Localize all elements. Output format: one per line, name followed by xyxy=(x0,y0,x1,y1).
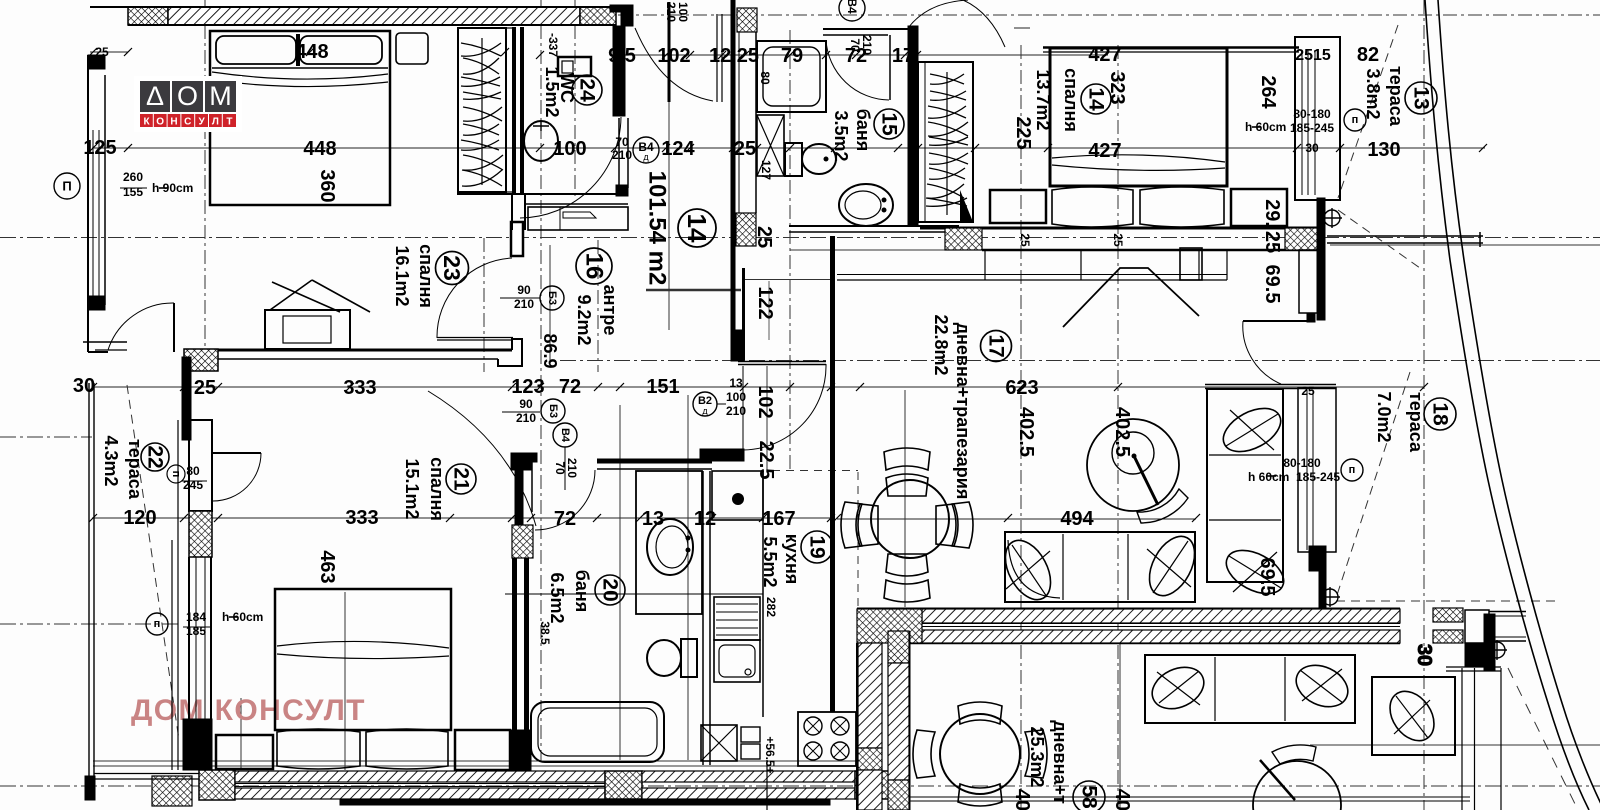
bed21 blanket xyxy=(277,641,449,658)
party wall corner black xyxy=(1465,643,1485,666)
survey marks xyxy=(1322,208,1342,228)
svg-text:185-245: 185-245 xyxy=(1290,121,1334,135)
site boundary curve B xyxy=(1438,0,1600,810)
svg-text:123: 123 xyxy=(511,376,544,398)
party wall crosshatch right xyxy=(1433,608,1463,622)
svg-text:П: П xyxy=(62,179,71,194)
dashed diag terrace13 xyxy=(1338,25,1398,198)
svg-text:210: 210 xyxy=(565,458,579,478)
svg-text:25: 25 xyxy=(1111,233,1125,247)
svg-text:69.5: 69.5 xyxy=(1256,558,1278,597)
svg-text:п: п xyxy=(1349,464,1356,476)
svg-text:80: 80 xyxy=(186,464,200,478)
svg-text:120: 120 xyxy=(123,507,156,529)
svg-text:40: 40 xyxy=(1011,789,1033,810)
room14 bottom wall band xyxy=(920,227,1318,230)
svg-text:102: 102 xyxy=(657,45,690,67)
svg-text:70: 70 xyxy=(615,135,629,149)
top wall band room23 hatched xyxy=(128,7,168,25)
vertical axis x1424 xyxy=(1423,0,1425,810)
vertical axis x205 xyxy=(204,0,206,375)
svg-text:антре: антре xyxy=(600,285,620,336)
logo KONSULT xyxy=(140,114,236,128)
svg-text:Л: Л xyxy=(212,117,219,128)
svg-text:25: 25 xyxy=(753,226,775,248)
room21 terrace door leaf xyxy=(213,452,261,454)
sink15 xyxy=(839,184,893,226)
dim line y518 xyxy=(92,517,830,519)
svg-text:О: О xyxy=(156,117,164,128)
floor lamp living xyxy=(1087,419,1179,511)
svg-text:5.5m2: 5.5m2 xyxy=(760,536,780,587)
tv unit living xyxy=(837,274,1227,276)
svg-text:тераса: тераса xyxy=(1406,392,1426,453)
top wall edge lines xyxy=(90,6,616,8)
dresser room23 xyxy=(265,310,350,349)
toilet15 tank xyxy=(785,143,802,176)
svg-text:623: 623 xyxy=(1005,377,1038,399)
svg-text:спалня: спалня xyxy=(1061,68,1081,132)
svg-text:100: 100 xyxy=(726,390,746,404)
chair left xyxy=(856,504,878,546)
vertical x620 xyxy=(619,405,621,760)
svg-text:9.2m2: 9.2m2 xyxy=(574,294,594,345)
svg-text:С: С xyxy=(184,117,191,128)
window23 label P xyxy=(54,173,80,199)
svg-text:25: 25 xyxy=(194,377,216,399)
living east window column lower xyxy=(1298,388,1336,552)
kitchen sink unit xyxy=(714,640,760,682)
axis dashdot y624 left xyxy=(0,623,180,625)
bed14 bench left box xyxy=(990,190,1046,223)
lower sofa pillow xyxy=(1146,659,1211,716)
dashed beam dining xyxy=(772,470,858,472)
svg-text:9.5: 9.5 xyxy=(608,45,636,67)
terrace18 door arc xyxy=(1243,321,1281,384)
svg-text:210: 210 xyxy=(664,2,678,22)
duct crosshatch top xyxy=(737,8,757,32)
room24 circle xyxy=(572,75,602,105)
kitchen door arc xyxy=(743,364,826,450)
left wall room21 black top xyxy=(182,357,191,440)
kitchen upper cabinet xyxy=(712,471,763,520)
furniture layer xyxy=(210,28,1455,810)
svg-text:69.5: 69.5 xyxy=(1261,265,1283,304)
svg-text:-337: -337 xyxy=(546,33,560,57)
shower tray bath15 xyxy=(757,41,826,112)
svg-text:151: 151 xyxy=(646,376,679,398)
svg-text:127: 127 xyxy=(759,160,773,180)
axis dashdot y786 full xyxy=(0,785,1600,787)
svg-text:463: 463 xyxy=(316,550,338,583)
svg-text:К: К xyxy=(143,117,150,128)
svg-text:333: 333 xyxy=(343,377,376,399)
svg-text:448: 448 xyxy=(295,41,328,63)
thin y245 right xyxy=(1330,244,1600,246)
dimension tick marks xyxy=(89,48,1487,522)
WC right wall black xyxy=(613,26,625,116)
bath15/wardrobe14 wall black xyxy=(908,26,918,226)
svg-text:102: 102 xyxy=(754,385,776,418)
vertical x345 bottom xyxy=(344,592,346,770)
logo DOM xyxy=(140,81,236,112)
svg-text:1.5m2: 1.5m2 xyxy=(542,66,562,117)
bed23 pillow right xyxy=(300,36,382,64)
bath15 door leaf xyxy=(889,35,891,100)
svg-text:3.5m2: 3.5m2 xyxy=(831,110,851,161)
living chevron xyxy=(1063,268,1199,327)
svg-text:Δ: Δ xyxy=(146,81,164,111)
lower apt inner line xyxy=(909,631,911,810)
bed23 blanket lines xyxy=(212,72,388,79)
svg-text:ДОМ КОНСУЛТ: ДОМ КОНСУЛТ xyxy=(131,694,366,727)
svg-text:323: 323 xyxy=(1106,71,1128,104)
svg-text:4.3m2: 4.3m2 xyxy=(101,435,121,486)
hall west wall: bedroom21 side column xyxy=(511,453,537,470)
dim line y55 xyxy=(612,54,1108,56)
svg-text:h 90cm: h 90cm xyxy=(152,181,193,195)
bath15 door arc xyxy=(826,40,889,100)
left wall room21 crosshatch xyxy=(189,511,212,557)
svg-text:210: 210 xyxy=(514,297,534,311)
hall cabinet xyxy=(528,207,628,230)
bottom wall band hatched xyxy=(199,770,235,800)
svg-text:90: 90 xyxy=(517,283,531,297)
WC/wardrobe wall lower white column xyxy=(511,193,513,230)
dim line y518 right xyxy=(837,518,1196,520)
svg-text:40: 40 xyxy=(1111,789,1133,810)
entrance jamb black L xyxy=(610,5,633,26)
svg-text:360: 360 xyxy=(316,169,338,202)
WC toilet bowl xyxy=(524,121,558,161)
bath20 left wall bottom black xyxy=(510,730,531,770)
room18 circle xyxy=(1424,398,1456,430)
svg-text:кухня: кухня xyxy=(782,534,802,585)
sink20 xyxy=(647,519,693,575)
axis dashdot y233 full xyxy=(0,237,1600,239)
boiler Xbox bath15 xyxy=(757,115,784,176)
duct crosshatch bottom xyxy=(736,213,756,246)
thin lines y761 y766 xyxy=(93,760,860,762)
lower apt stove xyxy=(798,712,856,766)
sofa v pillow bottom xyxy=(1219,542,1291,603)
nightstand14 left xyxy=(1180,248,1202,280)
lower lamp xyxy=(1253,761,1341,810)
bottom wall room23: crosshatch block xyxy=(184,349,218,371)
svg-text:п: п xyxy=(1352,114,1359,126)
vertical x1120 bottom xyxy=(1119,643,1121,810)
axis dashdot top right xyxy=(618,14,1600,16)
entrance door leaf xyxy=(668,2,671,102)
party wall vertical leg outer xyxy=(858,643,882,748)
svg-text:баня: баня xyxy=(853,109,873,152)
bottom wall room23 band xyxy=(218,349,512,352)
room23 terrace door leaf xyxy=(173,303,175,352)
room14 door arc xyxy=(908,0,1005,47)
svg-text:25.3m2: 25.3m2 xyxy=(1027,726,1047,787)
svg-text:427: 427 xyxy=(1088,44,1121,66)
party wall band horizontal xyxy=(922,609,1400,623)
WC cistern xyxy=(558,57,591,76)
door bath20 label xyxy=(553,423,577,447)
left wall room21 window column xyxy=(188,557,190,719)
lower chair top xyxy=(958,702,1002,724)
kitchen small boxes xyxy=(741,727,760,742)
svg-text:2515: 2515 xyxy=(1295,47,1331,64)
party wall end white column xyxy=(1465,610,1489,643)
svg-text:130: 130 xyxy=(1367,139,1400,161)
svg-text:17: 17 xyxy=(892,45,914,67)
room23 entry door leaf xyxy=(437,337,513,339)
bed21 cushion1 xyxy=(277,729,360,769)
bed room21 xyxy=(275,589,451,730)
living north wall pair xyxy=(1205,384,1336,386)
terrace13 wall black bar xyxy=(1317,198,1325,320)
lower sofa horizontal xyxy=(1145,655,1355,723)
lower chair left xyxy=(913,730,935,778)
svg-text:282: 282 xyxy=(764,597,778,617)
wardrobe23 hangers xyxy=(461,43,503,186)
room14 top wall xyxy=(1043,46,1299,49)
svg-text:п: п xyxy=(170,471,182,478)
room17 circle xyxy=(981,331,1012,362)
dashed diag bottomright xyxy=(1508,668,1578,810)
svg-text:дневна+т: дневна+т xyxy=(1050,720,1070,804)
kitchen duct wall black line xyxy=(731,0,736,361)
svg-text:101.54 m2: 101.54 m2 xyxy=(644,171,671,286)
bed21 cushion2 xyxy=(366,729,448,769)
svg-text:M: M xyxy=(209,81,232,111)
wardrobe23 rect xyxy=(458,28,506,192)
site boundary curve A xyxy=(1425,0,1589,810)
chair right xyxy=(936,504,958,546)
svg-text:д: д xyxy=(702,406,708,416)
apt number circle xyxy=(678,209,716,247)
svg-text:21: 21 xyxy=(450,467,473,491)
svg-text:210: 210 xyxy=(726,404,746,418)
hall bottom wall jog black xyxy=(731,330,744,361)
svg-text:B4: B4 xyxy=(845,0,859,14)
bottom dark line xyxy=(340,799,830,805)
svg-text:122: 122 xyxy=(754,286,776,319)
wall jog right end room23 xyxy=(498,339,522,366)
bath15 top wall xyxy=(823,28,913,30)
svg-text:402.5: 402.5 xyxy=(1015,407,1037,457)
terrace18 door leaf xyxy=(1243,320,1309,322)
left wall room21 window frame upper xyxy=(189,420,212,511)
svg-text:80-180: 80-180 xyxy=(1293,107,1331,121)
wardrobe-WC bottom wall xyxy=(457,193,628,195)
vertical axis x575 xyxy=(574,0,576,200)
room13 circle xyxy=(1405,82,1437,114)
bath20/kitchen divider xyxy=(702,471,704,765)
bath15 bottom wall xyxy=(789,225,959,227)
svg-text:185: 185 xyxy=(186,624,206,638)
svg-text:402.5: 402.5 xyxy=(1111,407,1133,457)
chair bottom xyxy=(886,554,928,576)
svg-text:29.: 29. xyxy=(1261,199,1283,227)
party wall corner crosshatch xyxy=(857,609,922,643)
room22 circle xyxy=(141,443,169,471)
wardrobe14 xyxy=(918,62,973,222)
svg-text:14: 14 xyxy=(682,214,712,243)
dashed diag terrace18a xyxy=(1337,372,1410,595)
bedside room23 xyxy=(396,33,428,64)
svg-text:427: 427 xyxy=(1088,140,1121,162)
svg-text:25: 25 xyxy=(95,45,109,59)
bed21 bench right box xyxy=(455,730,510,770)
svg-text:15: 15 xyxy=(878,112,901,136)
B2 door label xyxy=(693,392,717,416)
vertical x905 xyxy=(904,390,906,607)
svg-text:13: 13 xyxy=(729,376,743,390)
room22 p circle xyxy=(167,465,185,483)
svg-text:30: 30 xyxy=(1305,141,1319,155)
room23 entry door arc xyxy=(437,258,512,338)
sofa vertical living xyxy=(1207,389,1283,582)
svg-text:210: 210 xyxy=(516,411,536,425)
vanity bath20 xyxy=(636,471,702,614)
svg-text:82: 82 xyxy=(1357,44,1379,66)
bed23 pillow left xyxy=(216,36,296,64)
wardrobe23 rail xyxy=(481,38,483,185)
room23 door jamb column xyxy=(511,222,523,256)
svg-text:90: 90 xyxy=(519,397,533,411)
WC lower wall column xyxy=(618,118,620,188)
svg-text:30: 30 xyxy=(73,375,95,397)
svg-text:16.1m2: 16.1m2 xyxy=(392,245,412,306)
svg-text:18: 18 xyxy=(1429,402,1452,426)
svg-text:30: 30 xyxy=(1413,644,1435,666)
svg-text:h 60cm: h 60cm xyxy=(222,610,263,624)
left outer wall room23 xyxy=(87,55,89,352)
svg-text:3.8m2: 3.8m2 xyxy=(1363,68,1383,119)
svg-text:п: п xyxy=(154,618,161,630)
svg-text:210: 210 xyxy=(860,35,874,55)
svg-text:155: 155 xyxy=(123,185,143,199)
vertical axis x1118 xyxy=(1117,45,1119,810)
svg-text:22.8m2: 22.8m2 xyxy=(931,314,951,375)
vertical axis x1021 xyxy=(1020,45,1022,810)
svg-text:15.1m2: 15.1m2 xyxy=(402,458,422,519)
sofa pillow left xyxy=(996,533,1060,607)
duct column lines xyxy=(738,32,740,213)
terrace13 railing xyxy=(1327,235,1483,237)
svg-text:Н: Н xyxy=(170,117,177,128)
svg-text:23: 23 xyxy=(439,255,465,281)
toilet20 tank xyxy=(681,639,697,677)
black sq below window xyxy=(1307,314,1315,322)
svg-text:494: 494 xyxy=(1060,508,1094,530)
svg-text:баня: баня xyxy=(572,570,592,613)
dashed diag terrace22 xyxy=(127,385,179,740)
entrance door arc xyxy=(635,28,713,101)
party wall vertical leg inner xyxy=(888,631,909,663)
svg-text:тераса: тераса xyxy=(1386,66,1406,127)
kitchen door leaf xyxy=(738,361,826,363)
bath20 left wall double black xyxy=(512,558,517,730)
right wall column lower xyxy=(1461,668,1463,810)
room21 terrace door arc xyxy=(213,453,261,501)
svg-text:79: 79 xyxy=(781,45,803,67)
terrace22 left edge xyxy=(88,383,90,776)
svg-text:тераса: тераса xyxy=(125,439,145,500)
bed14 cushion1 xyxy=(1052,187,1133,227)
lower armchair vertical xyxy=(1372,677,1455,755)
bed room23 outer xyxy=(210,31,390,205)
lower armchair pillow xyxy=(1290,657,1355,714)
bed14 bench right box xyxy=(1231,189,1287,226)
svg-text:58: 58 xyxy=(1078,785,1101,809)
bed14 blanket xyxy=(1052,155,1225,171)
wardrobe23 side column xyxy=(506,28,514,192)
chair top xyxy=(886,474,928,496)
svg-text:спалня: спалня xyxy=(427,457,447,521)
svg-text:Б3: Б3 xyxy=(547,404,559,418)
room14 circle xyxy=(1081,84,1111,114)
dashed diag terrace13b xyxy=(1338,210,1420,268)
lower chair right xyxy=(1025,730,1047,778)
svg-text:O: O xyxy=(177,81,198,111)
thin y745 right xyxy=(1310,744,1600,746)
svg-text:24: 24 xyxy=(576,78,599,102)
kitchen east line xyxy=(762,471,764,717)
svg-text:25: 25 xyxy=(1018,233,1032,247)
toilet15 bowl xyxy=(802,144,836,174)
svg-text:25: 25 xyxy=(1301,384,1315,398)
svg-text:Т: Т xyxy=(226,117,232,128)
sofa long living xyxy=(1005,532,1195,602)
svg-text:13.7m2: 13.7m2 xyxy=(1033,69,1053,130)
svg-text:h 60cm: h 60cm xyxy=(1248,470,1289,484)
svg-text:225: 225 xyxy=(1012,116,1034,149)
svg-text:B4: B4 xyxy=(559,428,571,443)
svg-text:12.25: 12.25 xyxy=(709,45,759,67)
svg-text:184: 184 xyxy=(186,610,206,624)
lower apt dining table xyxy=(940,714,1020,794)
room16 circle xyxy=(576,248,612,284)
bath20 top wall xyxy=(597,459,712,464)
room23 circle xyxy=(436,252,469,285)
vertical axis x790 xyxy=(789,30,791,470)
sofa pillow right xyxy=(1140,529,1204,603)
vertical x484 xyxy=(483,238,485,372)
room20 circle xyxy=(595,575,625,605)
bathtub20 xyxy=(531,702,664,762)
svg-text:19: 19 xyxy=(806,535,829,558)
left wall room21 black bottom xyxy=(183,719,212,770)
svg-text:245: 245 xyxy=(183,478,203,492)
axis dashdot y360 right xyxy=(560,360,1600,362)
svg-text:100: 100 xyxy=(553,138,586,160)
svg-text:У: У xyxy=(198,117,205,128)
terrace18 corner black xyxy=(1309,546,1326,571)
svg-text:448: 448 xyxy=(303,138,336,160)
svg-text:дневна+трапезария: дневна+трапезария xyxy=(953,323,973,500)
lower chair bottom xyxy=(958,784,1002,806)
svg-text:167: 167 xyxy=(762,508,795,530)
dim line y387 xyxy=(92,386,1424,388)
svg-text:185-245: 185-245 xyxy=(1296,470,1340,484)
svg-text:210: 210 xyxy=(612,148,632,162)
svg-text:333: 333 xyxy=(345,507,378,529)
bed14 cushion2 xyxy=(1140,187,1224,227)
bed room14 xyxy=(1050,48,1227,186)
vertical x241 bottom xyxy=(240,698,242,770)
living east window column upper xyxy=(1299,250,1319,313)
kitchen Xbox xyxy=(701,725,737,761)
svg-text:25: 25 xyxy=(734,138,756,160)
